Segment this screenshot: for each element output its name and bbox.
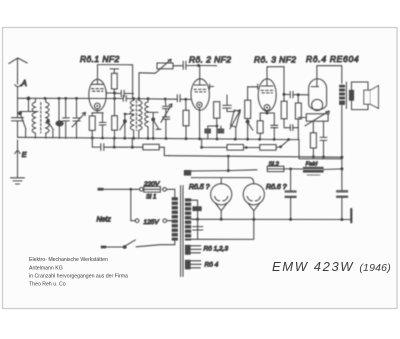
switch S2 wave band: [47, 120, 54, 138]
tube V3 cathode: [264, 105, 270, 111]
potentiometer P1 volume: [139, 59, 173, 98]
power transformer T2 core: [181, 186, 183, 277]
node B plus junctions x342: [340, 156, 343, 171]
svg-text:Rö.5 ?: Rö.5 ?: [189, 184, 210, 191]
wire coil tap: [148, 112, 158, 117]
resistor R13 decoupling: [202, 145, 260, 151]
wire E terminal drop: [17, 140, 19, 178]
tube V2 cathode: [197, 102, 202, 107]
fuse Si.2: [267, 166, 290, 171]
node V3 cathode junction: [260, 111, 274, 126]
tube V2 grid: [194, 89, 206, 92]
svg-text:Elektro- Mechanische Werkstätt: Elektro- Mechanische Werkstätten: [29, 257, 108, 263]
switch S1 input: [19, 97, 38, 138]
wire top signal bus: [18, 97, 123, 99]
wire heater rail y239: [191, 219, 254, 239]
coil L3 IF primary: [130, 99, 133, 139]
wire B plus rail: [169, 156, 342, 158]
value box 1: [204, 129, 211, 140]
series capacitor C9 grid V2: [183, 61, 198, 69]
resistor R14 decoupling: [260, 145, 281, 151]
terminal 125V right: [163, 219, 167, 223]
cathode resistor R8 V3: [257, 121, 263, 140]
node anode junction: [113, 92, 116, 95]
svg-text:Rö.1 NF2: Rö.1 NF2: [80, 54, 120, 64]
resistor R4 grid leak V2: [183, 99, 189, 138]
rectifier tube V6 Rö.6: [243, 184, 264, 220]
node decoupling wire junctions: [113, 145, 282, 149]
node R5 bottom: [216, 125, 219, 128]
resistor R11 bias: [310, 121, 316, 156]
tube V2 anode plate: [194, 66, 206, 86]
wire rectifier anode rail: [191, 170, 257, 171]
node heater rail junctions: [196, 218, 343, 221]
field coil Feld: [291, 166, 342, 175]
antenna symbol: [9, 58, 27, 81]
svg-text:Rö.6 ?: Rö.6 ?: [266, 184, 287, 191]
svg-text:125V: 125V: [144, 219, 160, 226]
variable capacitor C3 tuning: [72, 98, 86, 138]
wire cathode V2 to ground: [199, 108, 201, 139]
electrolytic capacitor C17: [337, 191, 348, 220]
node coupling junction x284: [283, 93, 286, 96]
power transformer T2 primary: [172, 197, 178, 240]
wire tap to band switch: [124, 113, 134, 116]
chassis terminal T bar: [350, 209, 352, 222]
svg-text:Rö 4: Rö 4: [205, 262, 219, 269]
tube V3 grid: [261, 90, 273, 93]
tube V1 side pin: [106, 91, 114, 96]
terminal 125V left: [135, 219, 139, 223]
wire antenna down: [17, 98, 19, 117]
wire V3 anode top to coupling: [267, 67, 284, 95]
wire ground taps to decoupling wire: [114, 138, 201, 147]
speaker LS1: [364, 86, 379, 109]
wire grid into V4: [298, 94, 309, 96]
capacitor C2 fixed: [63, 98, 70, 138]
wire top signal bus right part: [127, 98, 192, 101]
wire transformer primary bottom drop: [341, 106, 343, 191]
cathode bypass capacitor C4: [92, 109, 106, 138]
output transformer T1 primary: [339, 84, 345, 105]
variable resistor R6 slanted: [230, 110, 240, 139]
core IF transformer: [135, 101, 137, 131]
tube V4 plate: [311, 66, 318, 87]
dial lamp oval: [56, 98, 63, 138]
series capacitor C6 in bus: [123, 96, 126, 102]
resistor R7 grid leak V3: [245, 87, 251, 119]
tube V3 Rö.3 envelope: [258, 79, 276, 111]
ground bus: [18, 137, 300, 139]
node 125V branch: [129, 188, 132, 191]
node grid V2: [197, 64, 200, 67]
switch S4: [152, 118, 161, 138]
coil L5 detector: [145, 99, 148, 139]
series capacitor C8 in bus: [177, 95, 180, 102]
value box 2: [218, 126, 225, 134]
node filter cap 1 top: [289, 168, 292, 171]
cathode capacitor C11 V3: [271, 125, 278, 139]
wire pot to grid cap: [173, 65, 182, 67]
resistor R3 lower divider: [112, 93, 118, 138]
svg-text:Antelmann KG: Antelmann KG: [29, 266, 63, 272]
coil L4 IF secondary: [139, 99, 142, 139]
coupling capacitor C5: [115, 90, 134, 96]
svg-text:EMW 423W (1946): EMW 423W (1946): [272, 259, 391, 274]
svg-text:A: A: [21, 79, 27, 88]
svg-text:Rö. 3 NF2: Rö. 3 NF2: [254, 55, 296, 65]
bottom-left imprint text: [29, 257, 128, 288]
coupling capacitor C12 to V4 grid: [284, 91, 298, 98]
coil L2 antenna secondary: [46, 98, 49, 138]
capacitor antenna series: [12, 118, 24, 138]
capacitor C13: [284, 125, 298, 131]
tube V1 cathode: [94, 103, 100, 109]
rectifier filament winding block: [184, 170, 191, 176]
tube V1 Rö.1 envelope: [89, 79, 106, 110]
capacitor C15 antenna line series: [92, 138, 143, 151]
switch S5: [246, 119, 253, 140]
tube V3 anode plate: [261, 67, 273, 86]
switch S3 band: [120, 115, 127, 138]
wire 125V branch: [131, 189, 136, 220]
mains terminal upper: [98, 188, 104, 191]
node V4 grid: [297, 93, 300, 96]
svg-text:Rö 1,2,3: Rö 1,2,3: [204, 246, 229, 253]
svg-text:Theo Reh u. Co: Theo Reh u. Co: [29, 282, 66, 288]
antenna terminal A arrow: [15, 80, 21, 98]
node bus junctions: [44, 97, 188, 101]
capacitor C19 HV lower: [193, 227, 203, 230]
core antenna transformer: [40, 103, 42, 134]
wire grid top rail V1: [98, 65, 133, 99]
svg-text:Si.2: Si.2: [269, 162, 280, 168]
node ground bus junctions: [91, 137, 290, 141]
wire elbow to B plus rail: [164, 147, 168, 155]
svg-text:in Cranzahl hervorgegangen aus: in Cranzahl hervorgegangen aus der Firma: [29, 274, 128, 280]
power transformer T2 HV secondary: [185, 198, 191, 240]
wire to value box: [208, 126, 217, 139]
capacitor C14 bias: [320, 121, 327, 156]
svg-text:E: E: [22, 152, 27, 159]
wire mains upper: [104, 188, 140, 190]
wire ground bus end drop: [299, 140, 342, 159]
wire grid node to R5: [199, 65, 217, 68]
wire 125V to primary: [167, 220, 172, 222]
node B plus rail junctions: [312, 155, 325, 158]
wire V4 anode to output transformer: [317, 66, 342, 85]
resistor R5 grid leak chain: [214, 102, 220, 126]
tube V2 side pin: [210, 84, 214, 89]
tube V2 Rö.2 envelope: [191, 79, 209, 110]
wire speaker loop: [352, 82, 369, 110]
heater winding Rö 1,2,3: [185, 245, 201, 255]
wire diagonal to bus: [281, 140, 289, 147]
potentiometer P2 hum: [298, 111, 329, 126]
wire rectifier cathode rail: [191, 178, 254, 184]
capacitor C18 HV upper: [192, 206, 201, 211]
heater winding Rö 4: [185, 260, 201, 270]
electrolytic capacitor C16: [285, 169, 296, 219]
svg-text:Netz: Netz: [97, 217, 112, 224]
resistor R10 grid leak V4: [295, 95, 301, 140]
output transformer T1 secondary: [349, 90, 354, 101]
resistor R9: [281, 94, 287, 126]
ground symbol: [11, 178, 25, 184]
capacitor C10 coupling V2 anode: [223, 95, 235, 112]
tube V3 side pin: [248, 84, 258, 89]
svg-text:Rö. 2 NF2: Rö. 2 NF2: [189, 55, 231, 65]
resistor R2 screen feed: [110, 69, 119, 93]
terminal E arrow: [15, 150, 21, 156]
tube V4 Rö.4 envelope: [309, 79, 327, 110]
tube V1 anode plate: [92, 65, 104, 85]
rectifier tube V5 Rö.5: [211, 184, 232, 220]
mains terminal lower: [101, 246, 106, 249]
wire heater rail y219: [191, 218, 351, 220]
switch S6 mains: [106, 240, 175, 249]
node anode rail riser: [227, 155, 230, 172]
output transformer T1 core: [345, 82, 347, 109]
coil L1 antenna primary: [32, 98, 35, 138]
resistor R12 decoupling: [143, 144, 164, 150]
svg-text:Si 1: Si 1: [146, 195, 156, 201]
cathode resistor R1: [89, 113, 95, 138]
HV winding taps to cap rail: [191, 200, 197, 239]
variable capacitor C7 dual gang: [161, 99, 172, 139]
svg-text:Rö.4 RE604: Rö.4 RE604: [306, 54, 359, 64]
tube V4 cathode circle: [312, 99, 323, 110]
tube V1 grid: [91, 89, 103, 92]
fuse Si.1: [140, 187, 175, 198]
